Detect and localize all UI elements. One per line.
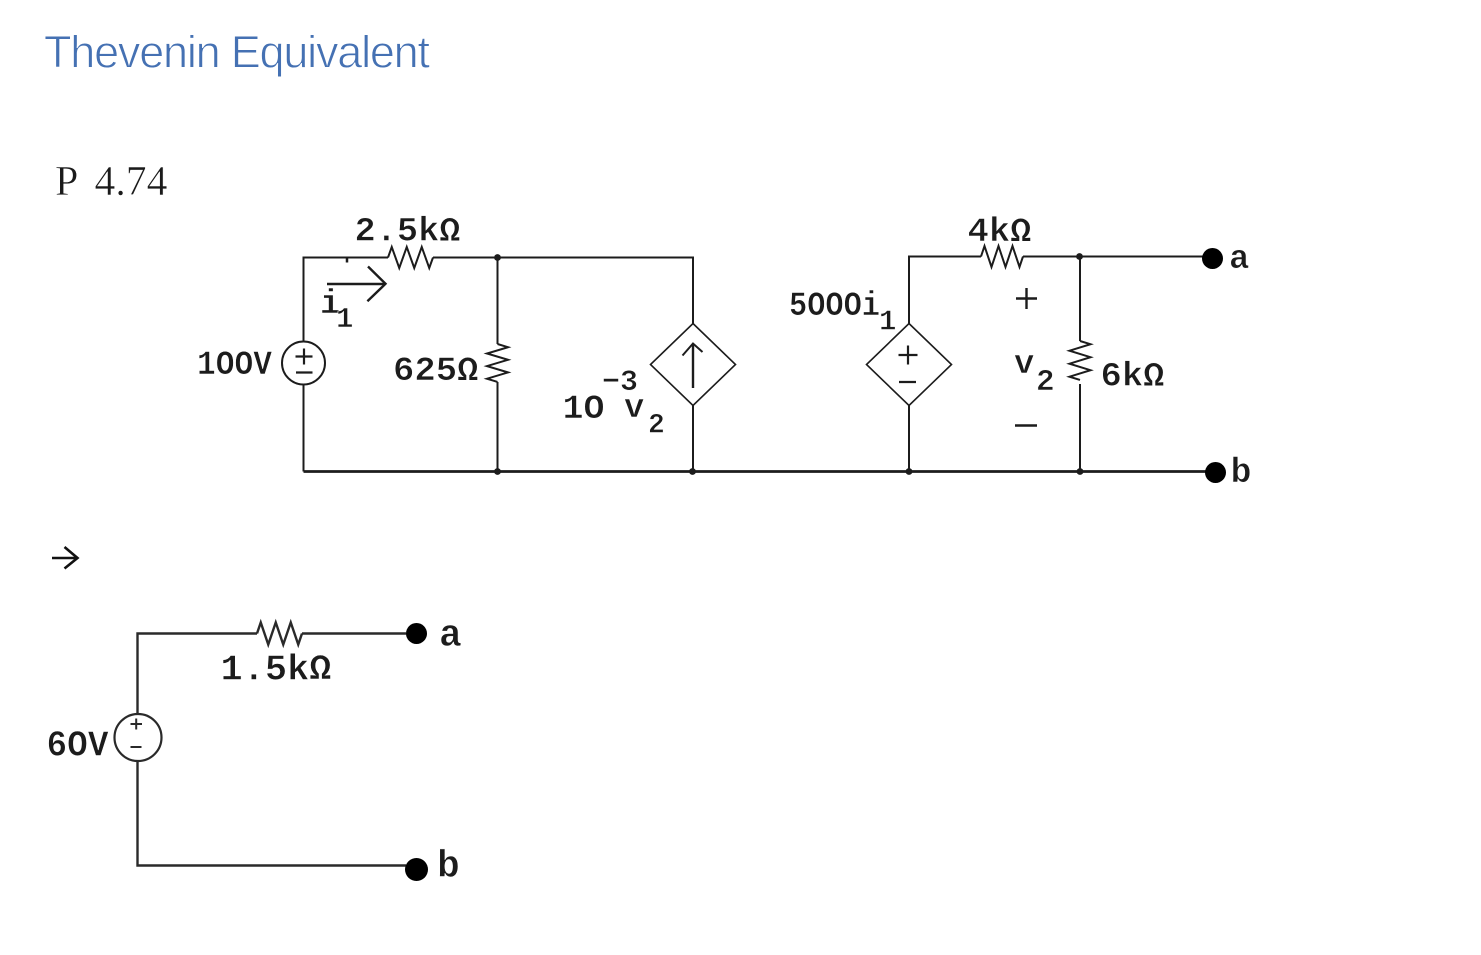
svg-text:1: 1	[879, 306, 896, 339]
node dot bottom of current source	[689, 468, 696, 475]
label 10^-3 v2	[563, 366, 665, 442]
wire: top wire from 2.5k to dependent current source corner	[433, 258, 693, 324]
resistor R4 6kOhm with leads	[1070, 257, 1091, 472]
node dot bottom of dependent voltage source	[906, 468, 913, 475]
resistor R5 1.5kOhm zigzag	[257, 623, 302, 645]
svg-text:2: 2	[1036, 365, 1055, 400]
resistor R1 2.5kOhm zigzag	[388, 247, 433, 268]
terminal b (top circuit)	[1205, 462, 1226, 483]
dependent current source 10^-3 v2	[651, 324, 736, 406]
wire: above dependent voltage source + top wire to 4k	[909, 257, 981, 324]
label 5000 i1	[789, 288, 896, 339]
svg-text:4.74: 4.74	[95, 159, 168, 205]
terminal b (bottom circuit)	[405, 858, 428, 881]
wire: bottom circuit left vertical + top wire to 1.5k	[138, 634, 258, 715]
node dot bottom of 6k resistor	[1077, 468, 1084, 475]
svg-text:Thevenin Equivalent: Thevenin Equivalent	[44, 27, 430, 78]
artifact tick on top wire	[346, 258, 349, 263]
svg-text:b: b	[437, 846, 460, 889]
node dot top of 625 resistor	[494, 254, 501, 261]
terminal a (bottom circuit)	[406, 623, 427, 644]
terminal a (top circuit)	[1202, 248, 1223, 269]
node dot top of 6k resistor	[1076, 253, 1083, 260]
label v2	[1014, 346, 1055, 400]
bottom wire	[304, 470, 1216, 473]
svg-text:a: a	[439, 615, 462, 658]
wire: 1.5k to terminal a	[302, 632, 406, 634]
wire: below current source	[692, 406, 694, 472]
svg-text:4kΩ: 4kΩ	[968, 214, 1032, 252]
current arrow i1	[327, 267, 386, 302]
svg-text:2: 2	[648, 411, 665, 442]
svg-text:P: P	[55, 159, 78, 205]
arrow right (implication)	[52, 547, 78, 569]
svg-text:1OOV: 1OOV	[197, 347, 273, 385]
node dot bottom of 625 resistor	[494, 468, 501, 475]
voltage source 60V	[115, 714, 162, 761]
dependent voltage source 5000 i1	[867, 324, 952, 406]
svg-text:5OOOi: 5OOOi	[789, 288, 880, 326]
wire: bottom circuit lower vertical + bottom wire to terminal b	[138, 761, 407, 866]
svg-text:1: 1	[336, 303, 353, 336]
svg-text:v: v	[1014, 346, 1034, 384]
svg-text:2.5kΩ: 2.5kΩ	[355, 214, 461, 252]
svg-text:1.5kΩ: 1.5kΩ	[221, 650, 332, 691]
voltage source 100V	[282, 342, 325, 385]
svg-text:6OV: 6OV	[47, 726, 109, 767]
problem label P 4.74	[55, 159, 168, 205]
svg-text:v: v	[624, 390, 644, 428]
svg-text:6kΩ: 6kΩ	[1101, 359, 1165, 397]
wire: below dependent voltage source	[908, 406, 910, 472]
wire: below 100V source	[303, 385, 305, 472]
svg-text:625Ω: 625Ω	[393, 353, 479, 391]
plus sign of v2	[1016, 288, 1037, 309]
svg-text:1O: 1O	[563, 391, 605, 429]
resistor R3 4kOhm zigzag	[981, 246, 1023, 267]
label i1	[320, 286, 353, 336]
svg-text:b: b	[1231, 453, 1252, 493]
wire: top wire from 4k to terminal a	[1023, 256, 1211, 258]
svg-text:a: a	[1229, 241, 1249, 279]
wire: left vertical top + top wire to 2.5k resistor	[304, 258, 389, 343]
resistor R2 625Ohm with leads	[487, 258, 508, 472]
minus sign of v2	[1015, 424, 1037, 426]
